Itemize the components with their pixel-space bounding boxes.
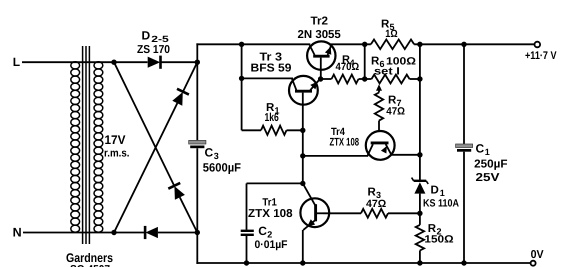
wire C2 branch (junction to C2) [247, 182, 303, 184]
wire C1 branch from top rail [463, 44, 465, 144]
svg-text:3: 3 [214, 151, 219, 161]
svg-text:D: D [431, 185, 439, 197]
transistor Tr3 (BFS 59) [289, 76, 320, 130]
wire 0V bottom rail [196, 262, 530, 264]
wire bridge diagonal B (bottom-left to top-right) [114, 103, 177, 232]
capacitor C1 plates [456, 144, 473, 148]
transistor Tr1 (ZTX 108) [300, 183, 329, 230]
node: C1 on 0V rail [461, 260, 466, 265]
svg-text:r.m.s.: r.m.s. [104, 147, 130, 159]
svg-text:N: N [13, 226, 22, 240]
svg-text:2N 3055: 2N 3055 [298, 29, 342, 41]
node: bridge - output junction [195, 230, 200, 235]
svg-text:47Ω: 47Ω [386, 106, 405, 118]
svg-text:ZTX 108: ZTX 108 [330, 136, 360, 148]
node B: R5 right junction [417, 42, 422, 47]
diode D3 (bottom, pointing left) [145, 227, 158, 238]
resistor R4 (470 ohm) [321, 78, 332, 80]
svg-text:Tr1: Tr1 [262, 197, 277, 209]
svg-text:2-5: 2-5 [151, 34, 169, 44]
svg-text:set I: set I [374, 65, 400, 77]
wire node B vertical (rail to Tr4 emitter and D1) [419, 44, 421, 180]
node: bridge + output junction [195, 60, 200, 65]
capacitor C2 plates [241, 230, 254, 232]
terminal 0V (open circle) [531, 261, 536, 266]
node: Tr2 base / Tr3 emitter / R4 junction [318, 76, 323, 81]
R6 wiper arrow to R7 [378, 88, 380, 93]
wire N input to transformer / bridge bottom-left [23, 232, 144, 234]
diode D4 on diagonal A (pointing up-left) [174, 186, 185, 200]
resistor R6 (100 ohm preset) [365, 78, 372, 80]
node: C2 on 0V rail [244, 260, 249, 265]
wire top rail: R5 to +11.7V terminal [414, 43, 534, 45]
wire Tr3 collector to top rail branch [241, 44, 243, 78]
svg-text:0·01µF: 0·01µF [255, 239, 288, 251]
diode D5 on diagonal B (pointing up-right) [172, 92, 183, 106]
wire C3 to bridge - corner [196, 148, 198, 232]
resistor R5 (1 ohm) in top rail [371, 40, 414, 50]
svg-text:5600µF: 5600µF [203, 161, 241, 175]
node: bridge bottom-left junction [111, 230, 116, 235]
svg-text:250µF: 250µF [474, 159, 507, 171]
wire bridge top: diode to + corner [160, 61, 197, 63]
svg-text:ZTX 108: ZTX 108 [248, 208, 293, 220]
node: Tr4 emitter junction [417, 152, 422, 157]
svg-text:0V: 0V [531, 249, 544, 261]
svg-text:KS 110A: KS 110A [423, 197, 459, 209]
resistor R7 (47 ohm) [375, 93, 383, 121]
wire C1 to 0V rail [463, 152, 465, 263]
svg-text:BFS 59: BFS 59 [251, 63, 292, 75]
node: Tr3 collector branch on top rail [239, 42, 244, 47]
svg-text:470Ω: 470Ω [336, 61, 360, 73]
svg-text:1: 1 [485, 147, 490, 157]
wire top rail: bridge + to Tr2 collector [196, 43, 310, 45]
wire node A vertical (rail to R6 row) [364, 44, 366, 79]
wire bridge bottom: diode to - corner [158, 232, 197, 234]
svg-text:Tr2: Tr2 [311, 16, 329, 28]
svg-text:Gardners: Gardners [66, 251, 113, 265]
wire Tr3 base vertical down [302, 130, 304, 183]
svg-text:D: D [142, 29, 151, 43]
node: D1 / R3 / R2 junction [417, 211, 422, 216]
svg-text:C: C [476, 142, 485, 156]
node: Tr1 emitter on 0V rail [300, 260, 305, 265]
diode D1 zener (KS 110A) [412, 178, 429, 214]
wire top rail: Tr2 emitter to R5 [331, 43, 371, 45]
svg-text:150Ω: 150Ω [424, 234, 453, 246]
node: C1 branch on top rail [461, 42, 466, 47]
transformer T1 secondary winding [94, 62, 103, 232]
svg-text:1k6: 1k6 [265, 112, 279, 124]
wire riser bridge + to top rail [196, 43, 198, 140]
svg-text:L: L [13, 55, 20, 69]
transformer T1 primary winding [71, 62, 80, 232]
transistor Tr4 (ZTX 108) [366, 131, 395, 160]
node: bridge top-left junction [111, 60, 116, 65]
transistor Tr2 (2N3055) [307, 41, 335, 79]
wire C2 to 0V rail [246, 236, 248, 263]
node: R1 / Tr3 base junction [300, 128, 305, 133]
svg-text:C: C [205, 146, 214, 160]
svg-text:+11·7 V: +11·7 V [525, 50, 557, 62]
wire L input to transformer / bridge top-left [22, 61, 148, 63]
svg-text:25V: 25V [476, 172, 500, 184]
svg-text:1Ω: 1Ω [385, 28, 397, 40]
terminal +11.7V (open circle) [535, 42, 541, 48]
wire Tr1 emitter to 0V rail [302, 230, 304, 263]
wire Tr4 emitter to node B [391, 154, 420, 156]
node: Tr1 collector / C2 junction [300, 181, 305, 186]
svg-text:17V: 17V [105, 133, 127, 147]
node: Tr4 collector junction [300, 153, 305, 158]
wire Tr4 collector row to Tr3 base vertical [303, 155, 368, 157]
wire R1 left leg from Tr3 collector branch [241, 78, 243, 130]
resistor R3 (47 ohm) [323, 212, 361, 214]
svg-text:C: C [258, 224, 267, 238]
resistor R1 (1k6) [242, 129, 261, 131]
svg-text:47Ω: 47Ω [366, 198, 386, 210]
svg-text:ZS 170: ZS 170 [137, 44, 170, 56]
wire riser bridge - to bottom rail corner [196, 233, 198, 264]
node A: R5/R6 left junction on rail [362, 42, 367, 47]
transformer T1 core [83, 46, 90, 244]
resistor R2 (150 ohm) [419, 213, 421, 225]
node: R2 on 0V rail [417, 260, 422, 265]
wire bridge diagonal A (top-left to bottom-right) [114, 62, 174, 186]
diode D2 (top, ZS170) [148, 57, 161, 68]
svg-text:2: 2 [267, 230, 272, 240]
capacitor C3 plates [189, 140, 206, 144]
